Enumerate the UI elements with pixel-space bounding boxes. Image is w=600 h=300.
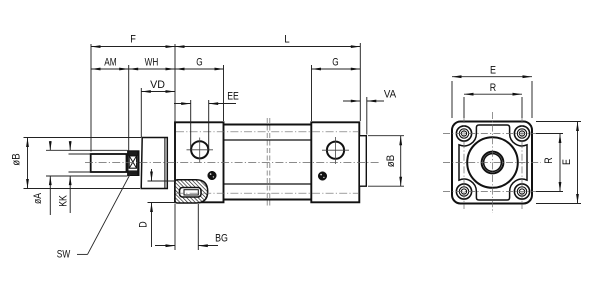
dimension AM <box>91 57 129 71</box>
svg-text:L: L <box>284 34 289 46</box>
extension line nut x128.7 <box>128 65 130 151</box>
bolt top-left <box>456 126 471 141</box>
bolt bottom-right <box>514 184 529 199</box>
front end cap <box>175 122 224 202</box>
dimension oB right <box>368 136 404 187</box>
front port EE circle <box>187 138 214 163</box>
rod nut SW <box>128 151 139 175</box>
dimension L <box>175 34 360 48</box>
front cap screw <box>208 171 217 180</box>
svg-text:AM: AM <box>104 57 116 69</box>
svg-text:G: G <box>196 57 202 69</box>
svg-text:G: G <box>332 57 338 69</box>
svg-text:EE: EE <box>227 91 239 103</box>
extension line plate x370 <box>366 97 368 135</box>
dimension R top <box>464 82 522 118</box>
dimension oA <box>32 141 128 215</box>
dimension VD <box>141 79 175 93</box>
svg-text:E: E <box>490 65 496 77</box>
piston position dashed line <box>267 118 270 206</box>
bolt centerline vertical right <box>521 116 523 209</box>
dimension F <box>91 34 175 48</box>
dimension VA <box>343 89 397 103</box>
svg-text:R: R <box>543 157 555 164</box>
svg-text:R: R <box>490 82 497 94</box>
label SW with leader <box>57 174 131 261</box>
end view rod thread rings <box>482 152 504 174</box>
wire main centerline side view <box>85 162 380 164</box>
svg-text:BG: BG <box>215 233 228 245</box>
dash-dot tie rod lines <box>176 132 359 193</box>
svg-text:øB: øB <box>385 155 397 167</box>
bearing collar boss <box>141 138 167 189</box>
dimension EE <box>174 91 239 106</box>
rear end cap <box>311 122 359 202</box>
extension line collar x141.3 <box>140 88 142 138</box>
dimension D <box>138 169 177 247</box>
dimension E top <box>452 65 532 119</box>
dimension BG <box>155 204 228 250</box>
extension line cap face x175 <box>174 44 176 122</box>
rear port circle <box>322 137 349 164</box>
dimension oB left <box>11 138 142 189</box>
bolt centerline horizontal top <box>443 133 541 135</box>
cylinder tube <box>224 125 312 200</box>
extension line cap rear x361 <box>359 43 361 121</box>
dimension G front <box>175 57 224 71</box>
end view inner contour <box>459 125 527 200</box>
extension line tube end x311.5 <box>311 65 313 121</box>
svg-text:øB: øB <box>11 153 23 165</box>
tube bore lines <box>224 140 312 184</box>
svg-text:SW: SW <box>57 249 71 261</box>
bolt top-right <box>514 126 529 141</box>
svg-text:F: F <box>130 34 136 46</box>
svg-text:KK: KK <box>58 194 70 206</box>
dimension WH <box>129 57 175 71</box>
end view center horizontal line <box>443 162 541 164</box>
extension line tube start x223.5 <box>223 65 225 121</box>
svg-text:D: D <box>138 221 150 228</box>
end view outer flange square <box>452 122 532 204</box>
dimension KK <box>58 141 72 213</box>
rear end plate <box>359 136 366 187</box>
bolt centerline horizontal bottom <box>443 191 541 193</box>
extension lines EE <box>191 100 209 151</box>
svg-text:E: E <box>561 159 573 165</box>
dimension R right <box>536 134 563 192</box>
dimension G rear <box>312 57 361 71</box>
svg-text:VD: VD <box>150 79 165 91</box>
svg-text:VA: VA <box>384 89 397 101</box>
rear cap screw <box>318 172 327 181</box>
piston rod <box>91 154 127 172</box>
bolt centerline vertical left <box>463 116 465 209</box>
end view center vertical line <box>492 112 494 213</box>
extension line rod end x91 <box>90 44 92 152</box>
dimension E right <box>536 122 581 204</box>
cushion boss front (hatched) <box>175 180 208 203</box>
svg-text:øA: øA <box>32 192 44 204</box>
svg-text:WH: WH <box>145 57 159 69</box>
bolt bottom-left <box>456 184 471 199</box>
end view central boss circle <box>467 137 518 188</box>
